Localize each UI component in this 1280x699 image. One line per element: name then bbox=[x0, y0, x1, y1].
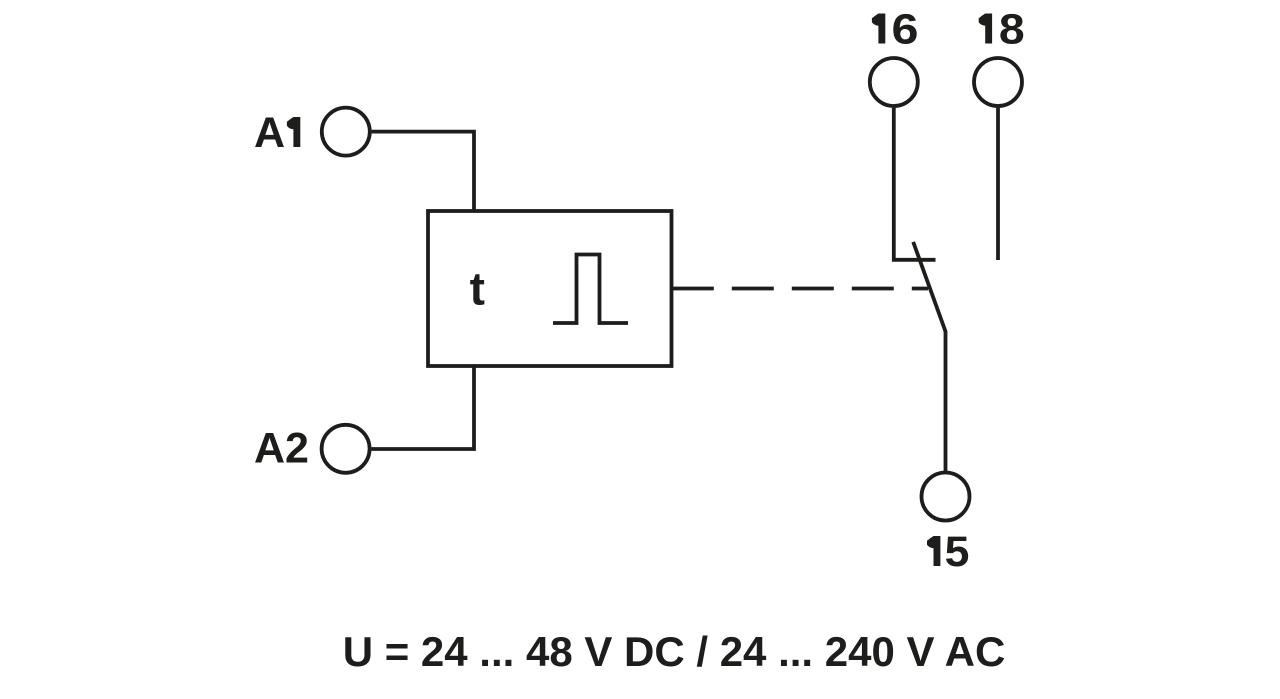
svg-text:6: 6 bbox=[892, 6, 919, 54]
svg-text:t: t bbox=[470, 263, 485, 315]
svg-text:A2: A2 bbox=[254, 425, 309, 473]
svg-text:U = 24 ... 48 V DC / 24 ... 24: U = 24 ... 48 V DC / 24 ... 240 V AC bbox=[343, 628, 1006, 675]
svg-text:A: A bbox=[254, 109, 285, 157]
svg-text:5: 5 bbox=[945, 528, 970, 576]
svg-text:8: 8 bbox=[999, 6, 1025, 54]
